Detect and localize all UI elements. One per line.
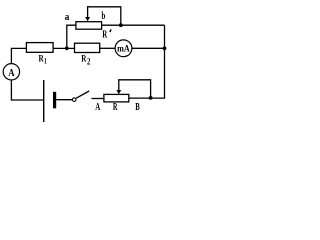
resistor R1 — [26, 43, 53, 53]
wire: milliammeter to right vertical — [132, 47, 165, 49]
svg-text:B: B — [135, 102, 140, 113]
milliammeter mA — [115, 40, 132, 57]
svg-text:mA: mA — [117, 44, 130, 54]
resistor R2 — [75, 43, 100, 52]
svg-text:A: A — [95, 102, 101, 113]
potentiometer R' body — [76, 22, 102, 30]
ammeter A — [3, 64, 19, 80]
junction node on bottom rail — [149, 96, 153, 100]
switch lever — [76, 91, 89, 98]
wire: ammeter down and to battery positive plate — [11, 80, 43, 100]
wire: battery to switch pivot — [56, 99, 72, 101]
battery short plate — [53, 92, 56, 109]
svg-text:1: 1 — [44, 56, 47, 65]
wire: R2 to milliammeter — [100, 47, 115, 49]
rheostat R body — [104, 94, 129, 102]
svg-text:a: a — [65, 12, 70, 23]
svg-text:R: R — [102, 30, 108, 41]
junction node b on R' right lead — [119, 23, 123, 27]
switch pivot — [72, 98, 76, 102]
wire: R1 to R2 — [53, 47, 74, 49]
svg-text:b: b — [102, 11, 106, 22]
svg-text:R: R — [113, 102, 118, 113]
wiper arrowhead of R — [116, 90, 121, 94]
battery long plate — [43, 80, 45, 122]
wire: R right lead to right vertical — [129, 97, 165, 99]
wire: R' terminal a lead down to R1-R2 node — [67, 25, 76, 47]
svg-text:A: A — [8, 67, 14, 79]
wire: right vertical rail — [164, 25, 166, 98]
wire: switch contact to rheostat R — [92, 98, 104, 100]
wire: R' wiper up, over to terminal b drop — [88, 7, 121, 25]
wire: left riser from ammeter top to corner, then to R1 left lead — [11, 48, 26, 63]
svg-text:2: 2 — [87, 57, 91, 67]
wiper arrowhead of R' — [85, 17, 90, 21]
wire: R' right lead to right vertical — [102, 24, 165, 26]
junction node on right vertical — [163, 46, 167, 50]
junction node between R1 and R2 — [65, 46, 69, 50]
wire: R wiper up, over and down to bottom rail — [119, 80, 151, 97]
